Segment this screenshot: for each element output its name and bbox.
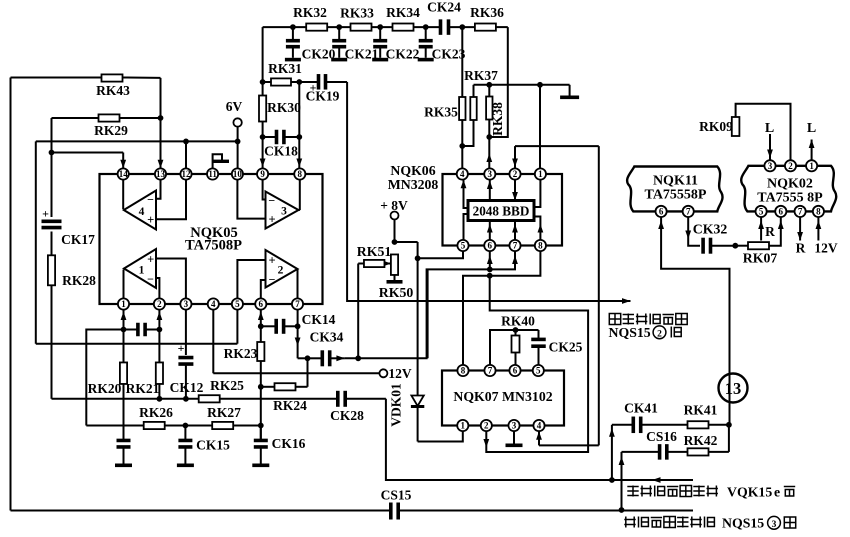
diode VDK01 bbox=[389, 383, 425, 441]
resistor RK23 bbox=[224, 342, 265, 439]
wire: RK43 loop bbox=[11, 78, 161, 169]
svg-text:6: 6 bbox=[659, 207, 664, 217]
svg-text:13: 13 bbox=[156, 169, 166, 179]
svg-text:CK25: CK25 bbox=[549, 340, 583, 355]
power terminal 6V bbox=[226, 99, 243, 168]
svg-text:NQK06: NQK06 bbox=[390, 163, 435, 178]
wire: RK29 branch bbox=[52, 117, 161, 119]
svg-text:TA7555 8P: TA7555 8P bbox=[757, 191, 823, 206]
svg-text:VDK01: VDK01 bbox=[389, 383, 404, 427]
wire: left border / input loop bbox=[10, 78, 12, 511]
svg-text:+: + bbox=[178, 341, 185, 355]
wire: top filter chain bbox=[263, 24, 508, 30]
svg-text:CK28: CK28 bbox=[330, 408, 364, 423]
svg-text:R: R bbox=[765, 224, 775, 239]
wire: CK41 drop to mic line bbox=[609, 425, 615, 480]
NQK07 pins 8,7,6,5 (top) bbox=[457, 365, 544, 376]
wire: RK36 output drop bbox=[486, 27, 507, 140]
svg-text:12: 12 bbox=[182, 169, 192, 179]
wire: pin8 column bbox=[296, 79, 302, 168]
svg-text:2048 BBD: 2048 BBD bbox=[473, 204, 530, 219]
capacitor CK17 (electrolytic) bbox=[42, 207, 96, 248]
NQK05 pins 14-8 (top row) bbox=[118, 168, 306, 179]
svg-text:RK28: RK28 bbox=[62, 273, 96, 288]
svg-text:CK17: CK17 bbox=[61, 232, 95, 247]
svg-text:3: 3 bbox=[772, 520, 777, 530]
resistor RK33 bbox=[340, 6, 374, 31]
svg-text:3: 3 bbox=[184, 299, 189, 309]
svg-text:2: 2 bbox=[157, 299, 162, 309]
svg-text:7: 7 bbox=[798, 207, 803, 217]
junction CK34 left node bbox=[305, 355, 311, 386]
capacitor CK21 (shunt to ground) bbox=[331, 27, 378, 61]
svg-text:7: 7 bbox=[488, 366, 493, 376]
op-amp 3 (NQK05) bbox=[266, 192, 299, 229]
svg-text:CK12: CK12 bbox=[170, 380, 204, 395]
wire: bottom delayed-signal-reinput line bbox=[11, 510, 694, 512]
svg-text:RK23: RK23 bbox=[224, 346, 258, 361]
wire: pin5 lower feed bbox=[36, 310, 238, 344]
op-amp 4 (NQK05) bbox=[124, 191, 156, 230]
resistor RK24 bbox=[258, 383, 308, 413]
wire: R input NQK02 pin5 bbox=[758, 217, 775, 241]
resistor RK38 bbox=[486, 85, 505, 137]
svg-text:RK26: RK26 bbox=[139, 405, 173, 420]
wire: 6V rail to pins 12/10 bbox=[36, 139, 241, 344]
capacitor CS15 bbox=[381, 488, 412, 520]
svg-text:−: − bbox=[269, 273, 276, 287]
junction RK43/RK29/pin13 bbox=[158, 115, 164, 168]
wire: op2 connections bbox=[237, 260, 297, 298]
svg-text:RK20: RK20 bbox=[88, 381, 122, 396]
capacitor CK22 (shunt to ground) bbox=[372, 27, 419, 61]
op-amp 1 (NQK05) bbox=[124, 249, 156, 288]
svg-text:NQK02: NQK02 bbox=[767, 177, 813, 192]
svg-text:RK27: RK27 bbox=[207, 405, 241, 420]
wire: CS16 drop to reinput line bbox=[619, 452, 625, 513]
IC NQK07 MN3102 box bbox=[442, 371, 564, 426]
resistor RK50 bbox=[379, 254, 414, 300]
ground (RK50) bbox=[387, 280, 403, 284]
svg-text:RK30: RK30 bbox=[267, 100, 301, 115]
svg-text:RK33: RK33 bbox=[340, 6, 374, 21]
junction RK09/CK32/RK07 bbox=[732, 243, 738, 249]
wire: BBD internal connections bbox=[461, 180, 544, 240]
capacitor CK23 (shunt to ground) bbox=[418, 27, 466, 61]
svg-text:9: 9 bbox=[260, 169, 265, 179]
svg-text:RK37: RK37 bbox=[464, 68, 498, 83]
svg-text:CK32: CK32 bbox=[693, 222, 728, 237]
capacitor CK15 with ground bbox=[177, 426, 230, 468]
svg-text:NQS15: NQS15 bbox=[609, 325, 651, 340]
svg-text:11: 11 bbox=[208, 169, 217, 179]
svg-text:6V: 6V bbox=[226, 99, 243, 114]
svg-text:3: 3 bbox=[768, 161, 773, 171]
resistor RK21 bbox=[126, 362, 163, 398]
svg-text:1: 1 bbox=[461, 421, 466, 431]
resistor RK43 bbox=[96, 74, 130, 98]
svg-text:CK18: CK18 bbox=[264, 144, 298, 159]
wire: pin1 column bbox=[121, 310, 127, 363]
wire: feedback line RK25/CK28 bbox=[52, 396, 386, 402]
power terminal 12V bbox=[379, 366, 411, 381]
IC 2048 BBD block bbox=[468, 201, 534, 221]
resistor RK34 bbox=[386, 5, 420, 31]
wire: NQK11 pin7 to CK32 bbox=[685, 217, 700, 246]
svg-text:e: e bbox=[774, 485, 780, 500]
svg-text:12V: 12V bbox=[388, 366, 412, 381]
svg-text:2: 2 bbox=[657, 330, 662, 340]
svg-text:2: 2 bbox=[278, 265, 284, 277]
svg-text:10: 10 bbox=[233, 169, 243, 179]
svg-text:8: 8 bbox=[816, 207, 821, 217]
svg-text:CK22: CK22 bbox=[386, 47, 420, 62]
NQK02 pins 3,2,1 (top) bbox=[764, 160, 817, 171]
capacitor CK14 bbox=[261, 312, 336, 334]
svg-text:CS16: CS16 bbox=[646, 429, 677, 444]
resistor RK27 bbox=[207, 405, 241, 429]
svg-text:4: 4 bbox=[211, 299, 216, 309]
svg-text:1: 1 bbox=[139, 265, 145, 277]
svg-text:CS15: CS15 bbox=[381, 488, 412, 503]
power terminal +8V bbox=[380, 198, 408, 242]
svg-text:RK32: RK32 bbox=[293, 5, 327, 20]
wire: pin6 column bbox=[258, 310, 264, 342]
wire: CK17 column bbox=[49, 118, 55, 399]
resistor RK42 bbox=[667, 433, 729, 456]
svg-text:7: 7 bbox=[295, 299, 300, 309]
svg-text:CK34: CK34 bbox=[310, 330, 344, 345]
wire: pin2 column bbox=[157, 310, 163, 363]
wire: CP2 line to NQK06 pins 6,7 bbox=[427, 251, 518, 358]
wire: op4 connections bbox=[123, 180, 186, 220]
op-amp U NQK02 TA75558P bbox=[741, 166, 836, 212]
svg-text:NQK11: NQK11 bbox=[653, 174, 698, 189]
svg-text:RK21: RK21 bbox=[126, 381, 160, 396]
svg-text:CK23: CK23 bbox=[432, 47, 466, 62]
NQK06 pins 4,3,2,1 (top) bbox=[457, 168, 546, 179]
svg-text:RK31: RK31 bbox=[268, 61, 302, 76]
wire: CP1 riser from NQK07 pin4 bbox=[536, 146, 599, 445]
svg-text:14: 14 bbox=[119, 169, 129, 179]
svg-text:1: 1 bbox=[538, 169, 543, 179]
wire: bias line with ground bbox=[474, 82, 570, 88]
junction +8V node bbox=[392, 239, 418, 245]
svg-text:13: 13 bbox=[725, 379, 742, 398]
svg-text:RK09: RK09 bbox=[699, 119, 733, 134]
svg-text:4: 4 bbox=[537, 421, 542, 431]
resistor RK31 bbox=[263, 61, 303, 86]
node: delayed signal output label bbox=[609, 314, 688, 341]
wire: CK34 output to clock riser bbox=[336, 269, 427, 361]
svg-text:CK15: CK15 bbox=[196, 438, 230, 453]
op-amp U NQK05 TA7508P box bbox=[100, 174, 323, 304]
svg-text:RK25: RK25 bbox=[210, 378, 244, 393]
svg-text:TA7508P: TA7508P bbox=[185, 238, 242, 254]
wire: pin14 feed bbox=[52, 153, 127, 169]
wire: pin12 stub bbox=[185, 141, 187, 168]
svg-text:RK41: RK41 bbox=[684, 403, 718, 418]
resistor RK30 bbox=[259, 96, 301, 122]
svg-text:NQK07 MN3102: NQK07 MN3102 bbox=[453, 389, 552, 404]
wire: clock line CP1 to NQK06 pin2 bbox=[512, 146, 599, 168]
svg-text:TA75558P: TA75558P bbox=[645, 188, 707, 203]
svg-text:RK43: RK43 bbox=[96, 83, 130, 98]
wire: NQK11 pin6 to feedback node bbox=[658, 217, 729, 425]
wire: RK51 to clock node bbox=[355, 264, 361, 362]
wire: NQK06 pin3 column bbox=[486, 137, 492, 168]
svg-text:+ 8V: + 8V bbox=[380, 198, 408, 213]
capacitor CK20 (shunt to ground) bbox=[285, 27, 336, 61]
resistor RK51 bbox=[357, 244, 392, 267]
svg-text:5: 5 bbox=[461, 241, 466, 251]
resistor RK37 bbox=[462, 68, 498, 146]
resistor RK41 bbox=[641, 403, 729, 429]
svg-text:1: 1 bbox=[809, 161, 814, 171]
svg-text:CK19: CK19 bbox=[306, 89, 340, 104]
svg-text:RK24: RK24 bbox=[273, 398, 307, 413]
wire: clock branch to NQK07 pin2 bbox=[483, 276, 588, 452]
label NQK06 MN3208 bbox=[388, 163, 439, 192]
ground (near RK37) bbox=[560, 85, 579, 99]
svg-text:L: L bbox=[807, 121, 816, 136]
svg-text:RK42: RK42 bbox=[684, 433, 718, 448]
svg-text:MN3208: MN3208 bbox=[388, 177, 439, 192]
svg-text:4: 4 bbox=[139, 206, 145, 218]
svg-text:+: + bbox=[268, 213, 275, 227]
svg-text:2: 2 bbox=[513, 169, 518, 179]
svg-text:3: 3 bbox=[488, 169, 493, 179]
svg-text:1: 1 bbox=[121, 299, 126, 309]
svg-text:+: + bbox=[268, 254, 275, 268]
capacitor CS16 bbox=[622, 429, 678, 460]
svg-text:12V: 12V bbox=[814, 241, 838, 256]
svg-text:8: 8 bbox=[538, 241, 543, 251]
capacitor CK24 bbox=[427, 0, 461, 35]
svg-text:3: 3 bbox=[512, 421, 517, 431]
node: delayed signal reinput label bbox=[624, 516, 795, 531]
svg-text:RK51: RK51 bbox=[357, 244, 392, 259]
svg-text:2: 2 bbox=[788, 161, 793, 171]
capacitor C (under RK20) with ground bbox=[115, 440, 132, 467]
capacitor CK12 (electrolytic) bbox=[170, 310, 204, 399]
resistor RK20 bbox=[88, 362, 127, 439]
svg-text:RK34: RK34 bbox=[386, 5, 420, 20]
svg-text:6: 6 bbox=[488, 241, 493, 251]
svg-text:−: − bbox=[147, 193, 154, 207]
capacitor CK19 (electrolytic) bbox=[299, 74, 347, 103]
svg-text:+: + bbox=[147, 253, 154, 267]
NQK05 pins 1-7 (bottom row) bbox=[118, 298, 303, 309]
svg-text:RK07: RK07 bbox=[743, 251, 778, 266]
svg-text:VQK15: VQK15 bbox=[727, 485, 772, 500]
svg-text:−: − bbox=[268, 194, 275, 208]
svg-text:RK50: RK50 bbox=[379, 285, 414, 300]
NQK07 pins 1,2,3,4 (bottom) bbox=[457, 420, 544, 431]
NQK06 pins 5,6,7,8 (bottom) bbox=[457, 240, 546, 251]
resistor RK28 bbox=[48, 255, 96, 288]
svg-text:5: 5 bbox=[759, 207, 764, 217]
junction RK41/RK42 node bbox=[726, 422, 732, 452]
svg-text:4: 4 bbox=[460, 169, 465, 179]
capacitor CK16 with ground bbox=[252, 426, 305, 468]
svg-text:6: 6 bbox=[259, 299, 264, 309]
wire: delayed signal output line (CK19 to NQS15 pin2) bbox=[347, 82, 630, 304]
IC NQK06 MN3208 box bbox=[443, 174, 563, 246]
NQK11 pins 6,7 bbox=[656, 206, 694, 217]
capacitor CK41 bbox=[612, 401, 658, 434]
capacitor CK18 bbox=[263, 130, 300, 159]
svg-text:+: + bbox=[147, 213, 154, 227]
op-amp 2 (NQK05) bbox=[266, 250, 298, 288]
svg-text:3: 3 bbox=[281, 206, 287, 218]
wire: 12V rail (pin4/RK23) bbox=[213, 310, 379, 374]
svg-text:6: 6 bbox=[779, 207, 784, 217]
svg-text:RK40: RK40 bbox=[501, 314, 535, 329]
capacitor CK28 bbox=[330, 391, 364, 423]
wire: pin7 column bbox=[295, 310, 308, 359]
svg-text:CK24: CK24 bbox=[427, 0, 461, 15]
wire: op1 connections bbox=[124, 259, 186, 299]
wire: VDK01 to NQK07 pin1 bbox=[418, 431, 463, 441]
svg-text:8: 8 bbox=[461, 366, 466, 376]
svg-text:CK41: CK41 bbox=[624, 401, 658, 416]
resistor RK25 bbox=[199, 378, 244, 402]
figure number 13 bbox=[719, 374, 748, 403]
wire: NQK06 pin1 column bbox=[539, 85, 541, 169]
ground (NQK07 pin3) bbox=[506, 431, 523, 447]
svg-text:CK14: CK14 bbox=[302, 312, 336, 327]
NQK02 pins 5,6,7,8 (bottom) bbox=[756, 206, 825, 217]
svg-text:RK29: RK29 bbox=[94, 123, 128, 138]
svg-text:L: L bbox=[765, 121, 774, 136]
wire: pin9 column bbox=[260, 27, 266, 168]
wire: 12V to NQK02 pin8 bbox=[814, 217, 838, 256]
resistor RK32 bbox=[293, 5, 327, 31]
capacitor CK25 bbox=[531, 330, 582, 365]
svg-text:CK16: CK16 bbox=[272, 436, 306, 451]
svg-text:RK36: RK36 bbox=[470, 5, 504, 20]
svg-text:8: 8 bbox=[298, 169, 303, 179]
capacitor CK32 bbox=[693, 222, 736, 254]
svg-text:5: 5 bbox=[235, 299, 240, 309]
resistor RK40 bbox=[490, 314, 539, 366]
NC flag at pin 11 bbox=[213, 154, 229, 168]
resistor RK07 bbox=[735, 217, 783, 266]
capacitor C (pin1-pin2 coupling) bbox=[124, 323, 160, 337]
wire: NQK06 pin8 to NQK07 pin8 bbox=[463, 251, 540, 365]
capacitor CK34 bbox=[308, 330, 345, 367]
wire: pin1 lower loop bbox=[86, 330, 123, 426]
wire: op3 connections bbox=[237, 180, 299, 219]
svg-text:5: 5 bbox=[536, 366, 541, 376]
svg-text:R: R bbox=[796, 241, 806, 256]
svg-text:6: 6 bbox=[513, 366, 518, 376]
svg-text:+: + bbox=[42, 207, 49, 221]
svg-text:RK35: RK35 bbox=[424, 105, 458, 120]
svg-text:−: − bbox=[147, 272, 154, 286]
resistor RK35 bbox=[424, 27, 465, 168]
wire: R output NQK02 pin7 bbox=[796, 217, 806, 256]
wire: L output from NQK02 pin1 bbox=[807, 121, 816, 160]
op-amp U NQK11 TA75558P bbox=[627, 167, 722, 212]
wire: mic input line bbox=[386, 399, 693, 483]
wire: L input to NQK02 pin3 bbox=[765, 121, 774, 160]
resistor RK09 bbox=[699, 104, 790, 160]
svg-text:7: 7 bbox=[686, 207, 691, 217]
svg-text:CK20: CK20 bbox=[302, 47, 336, 62]
svg-text:NQS15: NQS15 bbox=[722, 516, 764, 531]
wire: RK26/RK27 line bbox=[86, 423, 263, 429]
svg-text:RK38: RK38 bbox=[490, 102, 505, 136]
resistor RK29 bbox=[94, 114, 128, 138]
svg-text:7: 7 bbox=[513, 241, 518, 251]
wire: +8V feed to NQK06 pin5 / VD column bbox=[415, 242, 463, 393]
svg-text:2: 2 bbox=[484, 421, 489, 431]
resistor RK26 bbox=[139, 405, 173, 429]
resistor RK36 bbox=[470, 5, 504, 31]
node: microphone signal input label bbox=[627, 485, 795, 500]
